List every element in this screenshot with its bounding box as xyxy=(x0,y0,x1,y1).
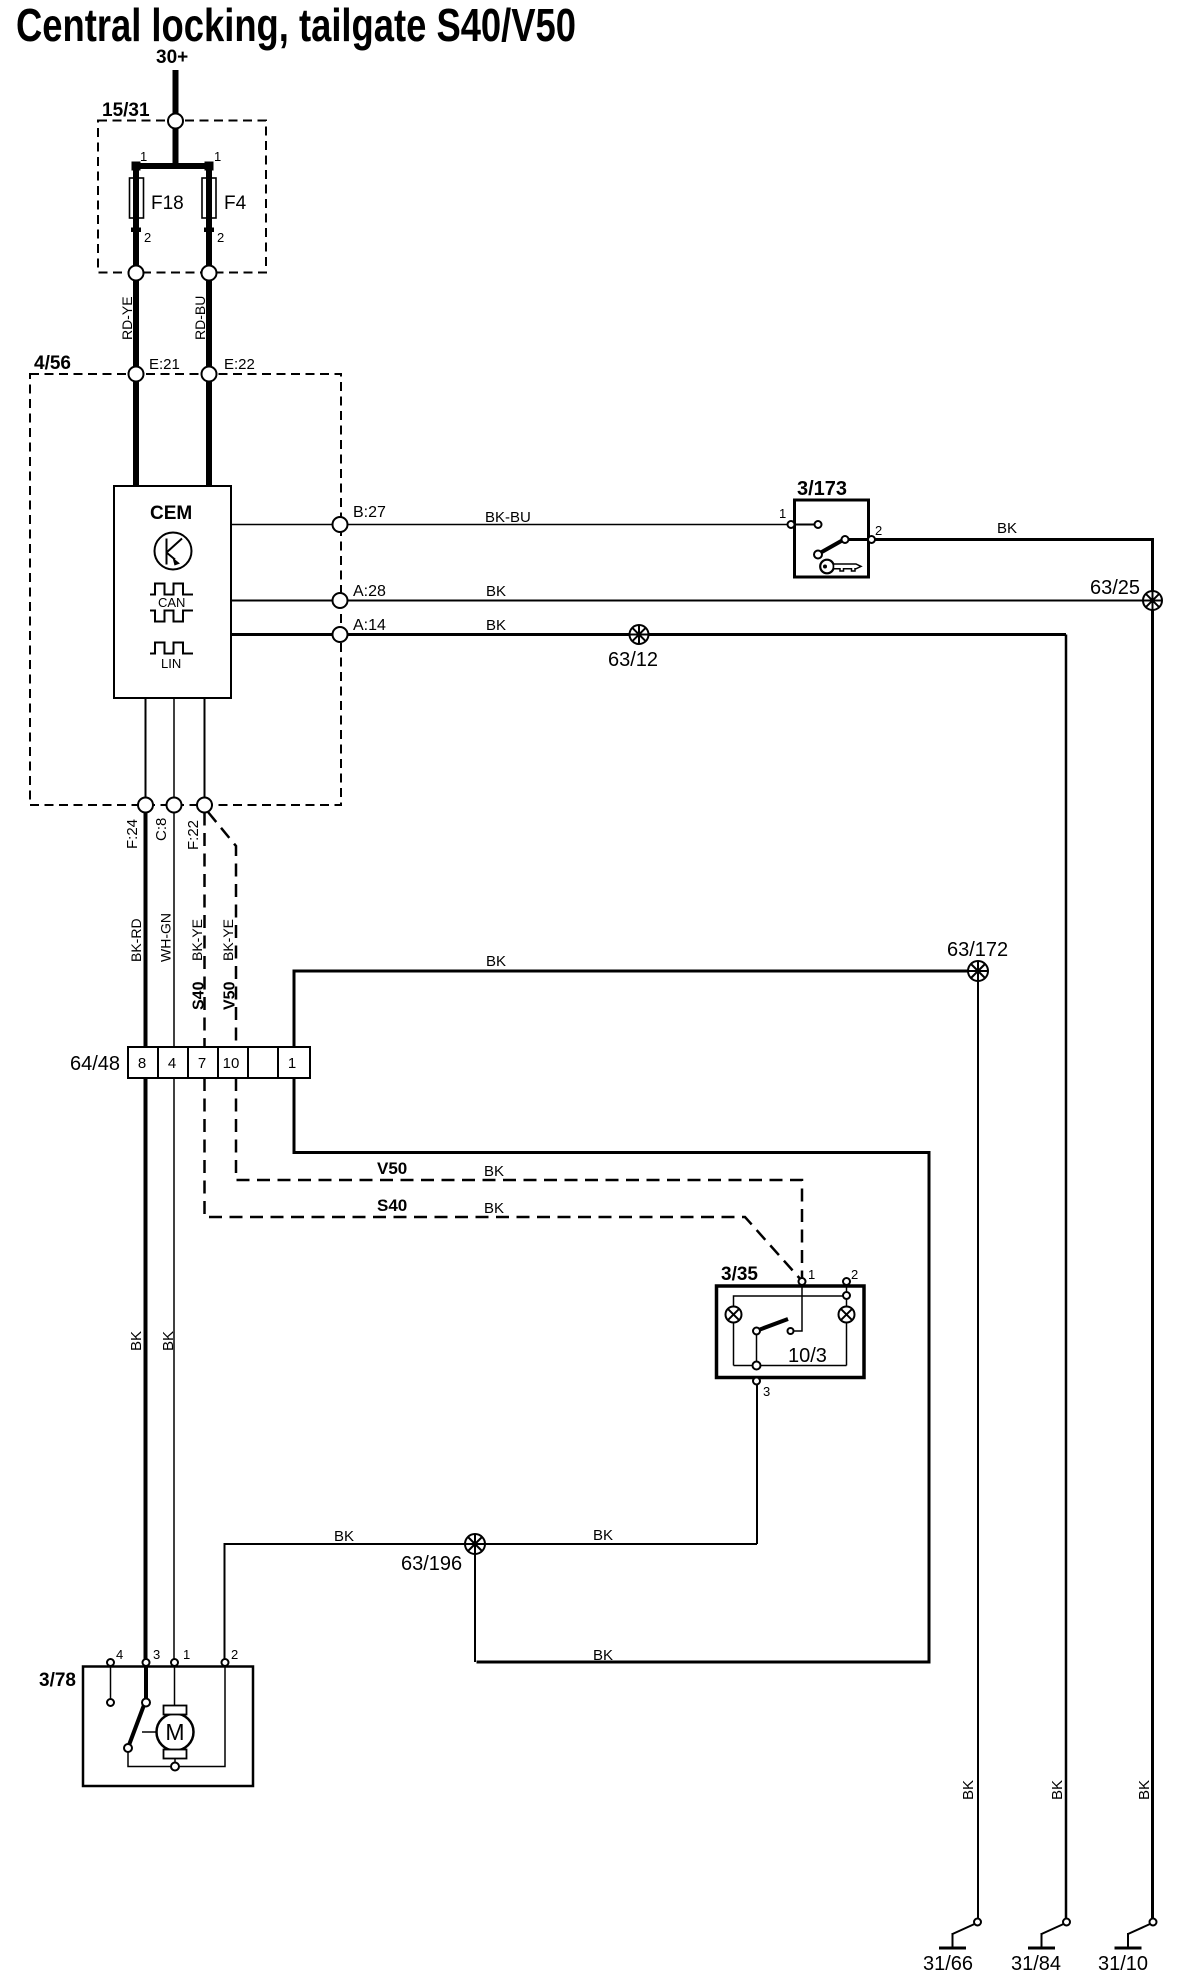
svg-text:CEM: CEM xyxy=(150,503,192,524)
lamp left 3/35 xyxy=(726,1307,742,1323)
terminal A:28 xyxy=(333,593,348,608)
svg-text:V50: V50 xyxy=(222,981,239,1010)
wire BK down to 31/66 xyxy=(977,981,979,1919)
switch 3/35 box xyxy=(717,1286,865,1378)
wire CEM C:8 inside xyxy=(173,698,175,805)
wire WH-GN xyxy=(173,813,175,1048)
svg-text:1: 1 xyxy=(288,1055,296,1072)
inner bottom wire 3/35 xyxy=(734,1365,847,1367)
CEM LIN symbol xyxy=(150,643,193,672)
svg-text:15/31: 15/31 xyxy=(102,100,150,121)
svg-text:BK: BK xyxy=(334,1528,354,1545)
svg-text:BK: BK xyxy=(128,1331,145,1351)
wire V50 dashed lower xyxy=(236,1078,802,1278)
svg-text:WH-GN: WH-GN xyxy=(158,913,174,962)
junction dot pin1 F4 xyxy=(205,162,214,171)
wire E:22 to CEM xyxy=(206,382,212,487)
wire CEM F:22 inside xyxy=(204,698,206,805)
svg-text:S40: S40 xyxy=(191,981,208,1010)
wire CEM F:24 inside xyxy=(145,698,147,805)
svg-text:F4: F4 xyxy=(224,193,247,214)
svg-text:1: 1 xyxy=(808,1267,815,1282)
wire pin2 down and left xyxy=(179,1666,225,1767)
lamp right 3/35 xyxy=(839,1307,855,1323)
svg-text:LIN: LIN xyxy=(161,656,181,671)
splice 63/25 xyxy=(1143,591,1162,610)
svg-text:10: 10 xyxy=(223,1055,240,1072)
terminal F:24 xyxy=(138,798,153,813)
svg-text:BK-RD: BK-RD xyxy=(128,918,144,962)
svg-text:63/25: 63/25 xyxy=(1090,577,1140,599)
wire BK to pin3 xyxy=(144,1078,148,1659)
terminal C:8 xyxy=(167,798,182,813)
svg-text:2: 2 xyxy=(144,230,151,245)
CEM U1 box xyxy=(114,486,231,698)
svg-text:BK: BK xyxy=(484,1200,504,1217)
terminal circle 15/31 top xyxy=(168,114,183,129)
wire splice down xyxy=(474,1554,476,1662)
terminal F:22 xyxy=(197,798,212,813)
wire BK down to 31/84 xyxy=(1065,635,1068,1919)
contact circle below pin2 xyxy=(843,1292,850,1299)
pin 3 3/35 xyxy=(753,1378,760,1385)
connector 64/48 xyxy=(128,1047,310,1078)
fuse F18 xyxy=(130,178,144,218)
svg-text:3: 3 xyxy=(153,1647,160,1662)
switch lever 3/78 xyxy=(129,1705,144,1745)
terminal E:22 xyxy=(202,367,217,382)
motor M 3/78 xyxy=(142,1706,194,1759)
fuse F4 xyxy=(202,178,216,218)
svg-text:31/84: 31/84 xyxy=(1011,1953,1061,1975)
contact circle 3/173 xyxy=(815,521,822,528)
pin 2 3/35 xyxy=(843,1278,850,1285)
svg-text:BK: BK xyxy=(160,1331,177,1351)
svg-text:1: 1 xyxy=(140,149,147,164)
svg-text:BK: BK xyxy=(486,953,506,970)
pin 1 3/35 xyxy=(799,1278,806,1285)
wire BK loop from pin1 down xyxy=(294,1078,929,1662)
key symbol xyxy=(820,560,861,574)
svg-text:F:22: F:22 xyxy=(185,820,202,850)
key switch 3/173 box xyxy=(795,500,869,577)
svg-text:30+: 30+ xyxy=(156,47,188,68)
wire RD-YE xyxy=(133,281,139,367)
pin 4 3/78 xyxy=(107,1659,114,1666)
svg-text:63/172: 63/172 xyxy=(947,939,1008,961)
wire E:21 to CEM xyxy=(133,382,139,487)
svg-text:BK: BK xyxy=(486,617,506,634)
pin4 stub xyxy=(110,1666,112,1699)
svg-text:4/56: 4/56 xyxy=(34,353,71,374)
wire pin1 to motor xyxy=(174,1666,176,1706)
switch lever 3/35 xyxy=(759,1319,789,1330)
svg-text:7: 7 xyxy=(198,1055,206,1072)
wire BK down to 31/10 xyxy=(1151,610,1154,1919)
svg-text:BK: BK xyxy=(1049,1780,1066,1800)
svg-text:10/3: 10/3 xyxy=(788,1345,827,1367)
wire feed to fuse bar xyxy=(173,129,179,170)
wire BK up from pin1 xyxy=(294,971,969,1047)
svg-text:B:27: B:27 xyxy=(353,504,386,521)
wire pin3 down xyxy=(756,1385,758,1545)
pin 1 3/78 xyxy=(171,1659,178,1666)
svg-text:2: 2 xyxy=(851,1267,858,1282)
wire BK-YE S40 dashed xyxy=(203,813,206,1048)
svg-text:C:8: C:8 xyxy=(153,818,170,841)
wire pin1 into box xyxy=(794,1285,802,1331)
svg-text:RD-YE: RD-YE xyxy=(119,296,135,340)
svg-text:BK: BK xyxy=(486,583,506,600)
CEM box 4/56 dashed xyxy=(30,374,341,805)
CEM CAN symbol xyxy=(150,584,193,622)
svg-text:E:21: E:21 xyxy=(149,356,180,373)
svg-text:S40: S40 xyxy=(377,1196,407,1215)
CEM clock symbol xyxy=(155,533,192,570)
wire lever to pin2 xyxy=(849,538,869,541)
terminal E:21 xyxy=(129,367,144,382)
svg-text:A:28: A:28 xyxy=(353,583,386,600)
fuse box 15/31 dashed xyxy=(98,121,266,273)
svg-text:63/12: 63/12 xyxy=(608,649,658,671)
wire lamp left down xyxy=(733,1323,735,1366)
wire A:28 xyxy=(231,600,1154,602)
wire BK to splice 63/196 xyxy=(225,1544,758,1659)
pin 2 3/173 xyxy=(868,536,875,543)
terminal B:27 xyxy=(333,517,348,532)
wire B:27 xyxy=(231,524,788,526)
svg-text:F:24: F:24 xyxy=(124,819,141,849)
ground 31/66 xyxy=(939,1919,981,1949)
pin 1 3/173 xyxy=(788,521,795,528)
junction circle 3/35 xyxy=(753,1362,761,1370)
svg-text:1: 1 xyxy=(779,506,786,521)
terminal circle F18 out xyxy=(129,266,144,281)
switch lever 3/173 xyxy=(820,540,843,553)
svg-text:64/48: 64/48 xyxy=(70,1053,120,1075)
svg-text:BK-YE: BK-YE xyxy=(189,919,205,961)
svg-text:BK-BU: BK-BU xyxy=(485,509,531,526)
inner top wire 3/35 xyxy=(734,1296,844,1307)
wire BK-RD xyxy=(144,813,148,1048)
svg-text:1: 1 xyxy=(214,149,221,164)
wire fuse bar xyxy=(133,163,213,169)
wire RD-BU xyxy=(206,281,212,367)
terminal A:14 xyxy=(333,627,348,642)
wire lamp right segments xyxy=(846,1299,848,1307)
svg-text:A:14: A:14 xyxy=(353,617,386,634)
contact circle switch right xyxy=(788,1328,794,1334)
svg-text:3/35: 3/35 xyxy=(721,1264,758,1285)
ground 31/84 xyxy=(1028,1919,1070,1949)
terminal circle F4 out xyxy=(202,266,217,281)
wire motor bottom xyxy=(174,1759,176,1763)
svg-text:BK-YE: BK-YE xyxy=(220,919,236,961)
wire BK from 3/173 pin2 xyxy=(875,540,1153,601)
svg-text:4: 4 xyxy=(168,1055,176,1072)
splice 63/172 xyxy=(968,961,988,981)
wire pin2 into box xyxy=(846,1285,848,1292)
wire BK-YE V50 dashed diagonal xyxy=(208,812,236,1047)
pin 3 3/78 xyxy=(143,1659,150,1666)
wire F4 branch xyxy=(206,166,212,266)
svg-text:3: 3 xyxy=(763,1384,770,1399)
wire 30+ feed xyxy=(173,70,179,114)
wire lever to bottom xyxy=(128,1752,171,1767)
wire pin3 to pivot xyxy=(144,1666,148,1699)
svg-text:4: 4 xyxy=(116,1647,123,1662)
junction dot pin1 F18 xyxy=(132,162,141,171)
motor unit 3/78 box xyxy=(83,1667,253,1787)
svg-text:CAN: CAN xyxy=(158,595,185,610)
splice 63/12 xyxy=(630,625,649,644)
svg-text:31/10: 31/10 xyxy=(1098,1953,1148,1975)
svg-text:3/173: 3/173 xyxy=(797,478,847,500)
svg-text:M: M xyxy=(165,1719,184,1745)
svg-text:BK: BK xyxy=(997,520,1017,537)
wire WH-GN to pin1 xyxy=(173,1078,175,1659)
svg-text:BK: BK xyxy=(960,1780,977,1800)
pin 2 dot F18 xyxy=(131,228,141,233)
svg-text:2: 2 xyxy=(231,1647,238,1662)
wire F18 branch xyxy=(133,166,139,266)
svg-text:63/196: 63/196 xyxy=(401,1553,462,1575)
svg-text:Central locking, tailgate S40/: Central locking, tailgate S40/V50 xyxy=(16,0,576,51)
svg-text:RD-BU: RD-BU xyxy=(192,296,208,340)
svg-text:31/66: 31/66 xyxy=(923,1953,973,1975)
wire A:14 xyxy=(231,633,1066,636)
splice 63/196 xyxy=(465,1534,485,1554)
ground 31/10 xyxy=(1115,1919,1157,1949)
pin 2 dot F4 xyxy=(204,228,214,233)
svg-text:BK: BK xyxy=(593,1647,613,1664)
svg-text:3/78: 3/78 xyxy=(39,1670,76,1691)
svg-text:BK: BK xyxy=(484,1163,504,1180)
pin 2 3/78 xyxy=(222,1659,229,1666)
wire S40 dashed lower xyxy=(205,1078,803,1281)
svg-text:BK: BK xyxy=(1136,1780,1153,1800)
svg-text:E:22: E:22 xyxy=(224,356,255,373)
wire pivot down xyxy=(756,1335,758,1362)
svg-text:2: 2 xyxy=(875,523,882,538)
svg-text:1: 1 xyxy=(183,1647,190,1662)
svg-text:F18: F18 xyxy=(151,193,184,214)
wire pin1 stub xyxy=(795,524,815,526)
svg-text:8: 8 xyxy=(138,1055,146,1072)
svg-text:V50: V50 xyxy=(377,1159,407,1178)
svg-text:2: 2 xyxy=(217,230,224,245)
svg-text:BK: BK xyxy=(593,1527,613,1544)
pivot circle 3/35 xyxy=(753,1328,760,1335)
